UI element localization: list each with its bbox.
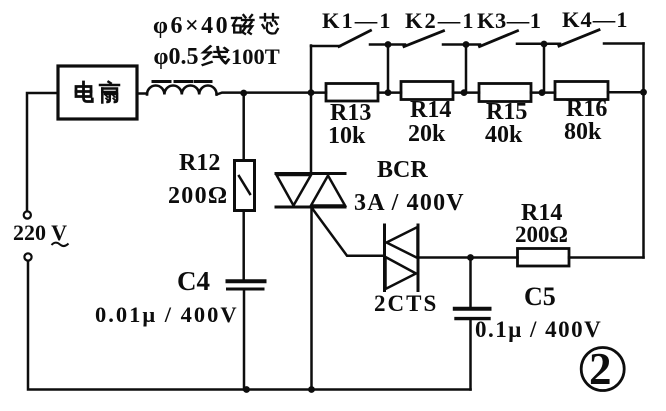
svg-text:100T: 100T (231, 44, 280, 69)
svg-text:K3—1: K3—1 (477, 8, 542, 33)
svg-text:2: 2 (589, 344, 612, 394)
svg-text:C4: C4 (177, 266, 210, 296)
svg-text:C5: C5 (524, 282, 556, 311)
svg-text:BCR: BCR (377, 157, 428, 183)
svg-text:R12: R12 (179, 150, 220, 176)
svg-text:3A / 400V: 3A / 400V (354, 190, 465, 216)
svg-text:10k: 10k (328, 123, 366, 149)
svg-text:80k: 80k (564, 119, 602, 145)
svg-text:40k: 40k (485, 122, 523, 148)
svg-text:20k: 20k (408, 121, 446, 147)
svg-text:200Ω: 200Ω (168, 183, 228, 209)
svg-text:K1—1: K1—1 (322, 8, 393, 33)
svg-text:φ0.5: φ0.5 (154, 44, 199, 70)
svg-text:φ6×40: φ6×40 (153, 13, 230, 39)
svg-text:R14: R14 (410, 97, 451, 123)
svg-text:0.01μ / 400V: 0.01μ / 400V (95, 302, 239, 327)
svg-text:K2—1: K2—1 (405, 8, 476, 33)
svg-text:200Ω: 200Ω (515, 222, 568, 247)
svg-text:0.1μ / 400V: 0.1μ / 400V (475, 317, 602, 342)
svg-text:K4—1: K4—1 (562, 7, 629, 32)
svg-text:2CTS: 2CTS (374, 291, 438, 316)
svg-text:220 V: 220 V (13, 220, 67, 245)
